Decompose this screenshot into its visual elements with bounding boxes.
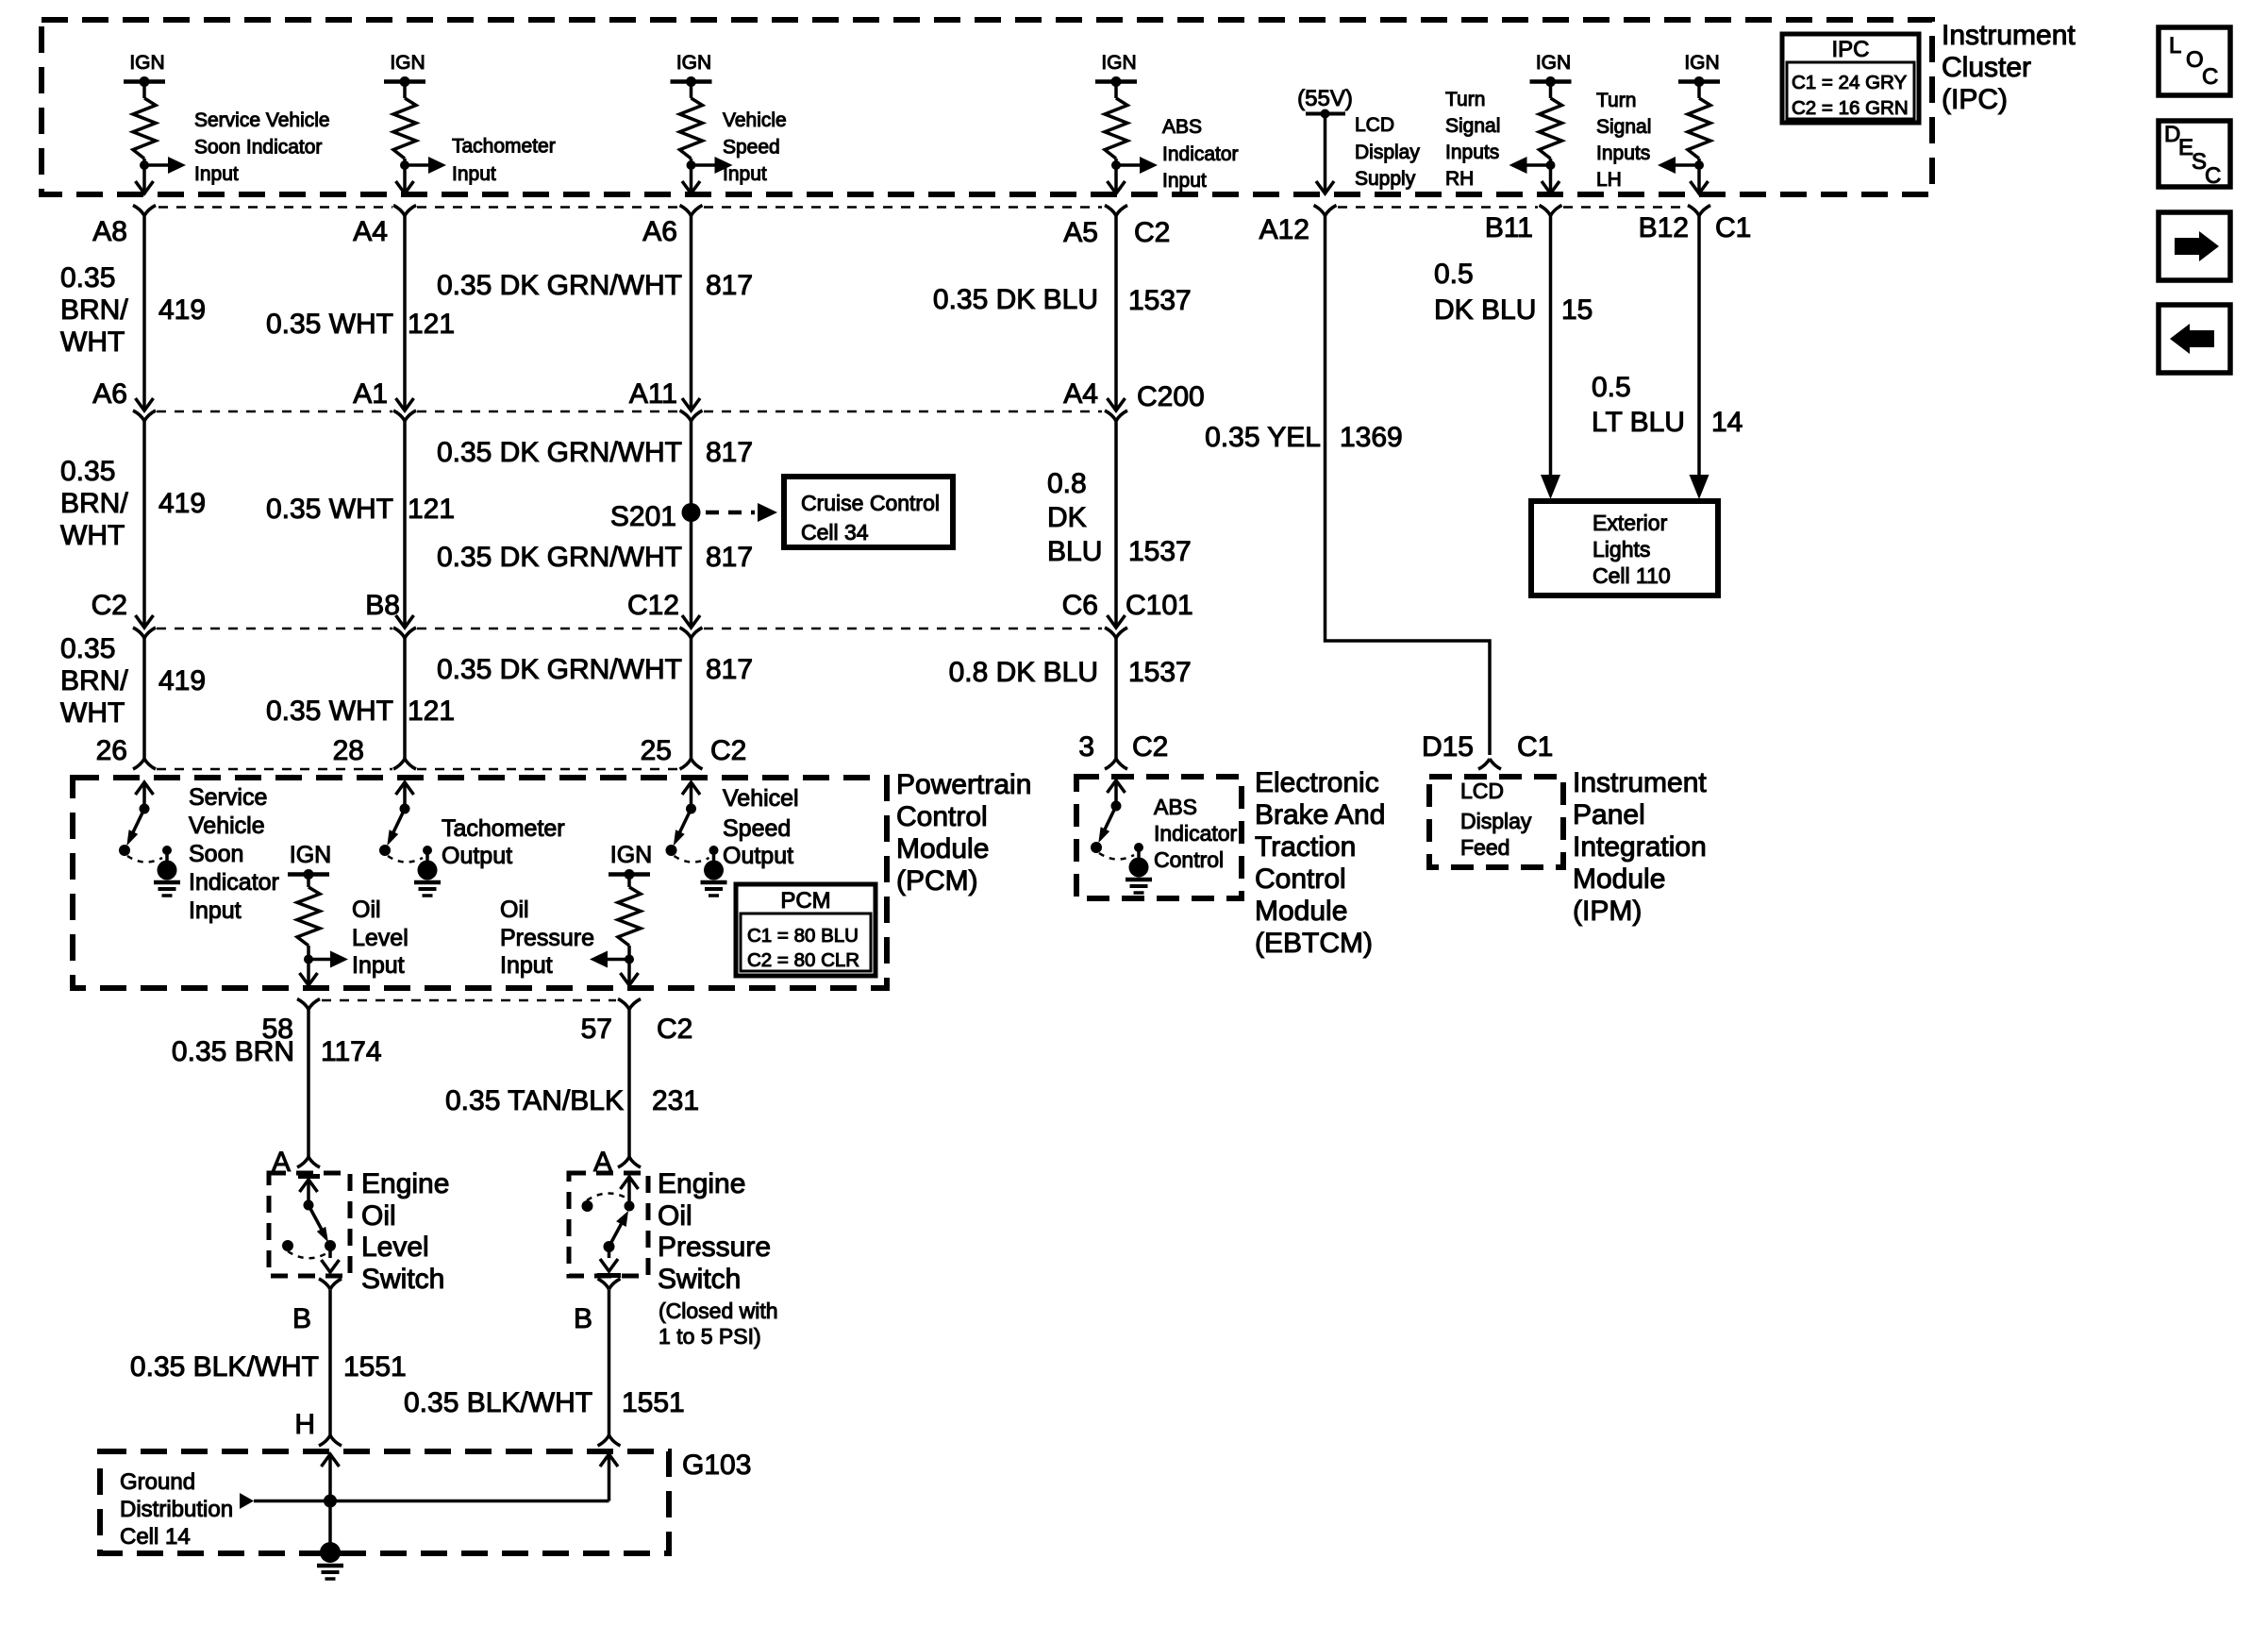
svg-text:WHT: WHT [60,327,125,358]
svg-text:0.35 DK BLU: 0.35 DK BLU [933,284,1098,315]
svg-text:D15: D15 [1422,731,1474,763]
svg-text:Level: Level [352,925,409,951]
connector chevron C200 pin A6 [133,411,156,421]
wire 14 LT BLU from B12 to Exterior Lights (arrow down) [1697,216,1701,478]
junction dot col 7 [1694,160,1704,170]
svg-text:(IPC): (IPC) [1942,84,2008,115]
wire 121 WHT col2 (row2-row3) [403,421,407,627]
wire 817 DK GRN/WHT col3 upper (row2-S201) [690,421,693,512]
wire 1369 YEL from A12 down, jog right to IPM D15 [1326,216,1491,756]
svg-text:28: 28 [333,735,364,766]
svg-text:Vehicel: Vehicel [723,785,799,812]
svg-text:1174: 1174 [321,1036,382,1067]
svg-text:Oil: Oil [500,897,529,923]
connector chevron oil pressure switch pin A [618,1157,641,1167]
oil level switch up arrow [300,1180,318,1192]
module box Instrument Cluster (IPC) dashed border [42,20,1932,194]
svg-text:Soon: Soon [189,841,243,867]
indicator ball (Vehicle Speed Output) [704,861,724,880]
svg-text:A6: A6 [92,378,127,410]
svg-text:121: 121 [408,309,455,340]
svg-text:1537: 1537 [1128,285,1192,316]
wire 419 BRN/WHT col1 (row1-row2) [142,216,146,411]
svg-text:C2 = 16 GRN: C2 = 16 GRN [1792,97,1909,119]
indicator ball (Tachometer Output) [418,861,438,880]
svg-text:Vehicle: Vehicle [723,109,787,131]
svg-text:Switch: Switch [361,1264,444,1295]
IGN feed bar with junction dot (IPC col 1) [124,79,165,84]
ground bus wire G103 [254,1500,609,1503]
oil pressure switch travel arc dashed [587,1193,627,1200]
junction dot col 6 [1546,160,1556,170]
switch contact dot (Service Vehicle Soon Indicator) [140,804,150,814]
connector line IPC C1 (dashed) [1338,206,1538,209]
wire 1551 BLK/WHT (oil pressure switch to G103) [608,1290,611,1436]
svg-text:0.35 BLK/WHT: 0.35 BLK/WHT [404,1387,592,1418]
oil level switch arm with arrowhead [309,1205,322,1230]
svg-text:121: 121 [408,696,455,727]
IPC table inner box [1787,62,1914,119]
switch contact dot (ABS) [1111,801,1122,812]
svg-text:Module: Module [1573,863,1665,895]
svg-text:Output: Output [723,843,793,869]
oil level switch bottom contact dot [325,1240,336,1251]
svg-text:0.35 DK GRN/WHT: 0.35 DK GRN/WHT [437,270,682,301]
wire IGN bar to resistor (col 7) [1697,82,1701,99]
resistor R7 Turn Signal LH (IPC) [1688,98,1710,159]
svg-text:A1: A1 [353,378,388,410]
connector chevron C200 pin A4 [1105,411,1127,421]
svg-text:B12: B12 [1639,212,1689,243]
indicator ball stem (ABS) [1137,847,1141,861]
svg-text:Inputs: Inputs [1596,142,1650,164]
connector chevron C101 pin C6 [1105,628,1127,638]
svg-text:Control: Control [896,801,988,832]
svg-text:C2: C2 [710,735,746,766]
ground under indicator ball (ABS) [1126,878,1152,882]
connector chevron PCM pin 58 [297,999,320,1010]
IGN feed bar with junction dot (IPC col 7) [1678,79,1720,84]
svg-text:IGN: IGN [610,842,652,868]
svg-text:A4: A4 [353,216,388,247]
svg-text:LCD: LCD [1460,779,1504,803]
svg-text:0.35 WHT: 0.35 WHT [266,494,393,525]
arrow Service Vehicle Soon Indicator Input (points right) [144,163,169,167]
connector chevron pin A5 [1105,206,1127,216]
indicator ball (ABS) [1129,858,1149,878]
svg-text:IGN: IGN [676,52,711,74]
oil level switch travel limit dot [282,1240,293,1251]
svg-text:Input: Input [723,163,767,185]
wire junction to IPC border with down arrowhead (col 1) [142,179,146,193]
junction dot col 2 [400,160,409,170]
svg-text:Cell 34: Cell 34 [801,520,869,545]
svg-text:0.35: 0.35 [60,633,115,664]
oil pressure switch arm with arrowhead [609,1224,622,1247]
svg-text:0.35 YEL: 0.35 YEL [1205,422,1321,453]
wire junction to IPC border with down arrowhead (col 7) [1697,179,1701,193]
svg-text:Powertrain: Powertrain [896,769,1031,800]
wire oil pressure to PCM border with down arrowhead [627,972,631,984]
svg-text:RH: RH [1445,168,1474,190]
svg-text:Oil: Oil [361,1200,396,1232]
svg-text:A5: A5 [1063,217,1098,248]
connector chevron oil level switch pin B [319,1279,342,1289]
connector line C200 (dashed) [157,411,392,413]
resistor R oil level input (PCM) [307,875,310,888]
IGN feed bar with junction dot (PCM oil level) [288,872,329,877]
svg-text:Control: Control [1255,863,1346,895]
svg-text:C1 = 80 BLU: C1 = 80 BLU [747,925,859,947]
svg-text:Cluster: Cluster [1942,52,2031,83]
svg-text:Input: Input [500,952,553,979]
indicator ball stem dot (ABS) [1134,843,1143,852]
connector chevron oil level switch pin A [297,1157,320,1167]
svg-text:(EBTCM): (EBTCM) [1255,928,1373,959]
svg-text:817: 817 [706,542,753,573]
IGN feed bar with junction dot (IPC col 4) [1095,79,1137,84]
wire oil level to PCM border with down arrowhead [307,972,310,984]
svg-text:B8: B8 [365,590,400,621]
wire G103 right branch up arrow [600,1454,618,1467]
oil level switch wire to pin B with down arrowhead [328,1246,332,1258]
box Exterior Lights Cell 110 [1531,501,1718,595]
wire G103 left branch up arrow [322,1454,340,1467]
junction dot oil level [304,955,313,964]
svg-text:57: 57 [581,1014,612,1045]
svg-text:14: 14 [1711,407,1743,438]
svg-text:Switch: Switch [658,1264,741,1295]
svg-text:DK: DK [1047,502,1087,533]
connector line PCM C1/C2 (dashed) [157,768,392,771]
svg-text:C101: C101 [1126,590,1193,621]
IGN feed bar with junction dot (IPC col 3) [671,79,712,84]
ground symbol G103 [317,1564,343,1568]
wire 55V supply to IPC border with down arrowhead [1324,114,1327,193]
connector chevron oil pressure switch pin B [598,1279,621,1289]
wire 419 BRN/WHT col1 (row3-PCM) [142,638,146,759]
svg-text:0.35 WHT: 0.35 WHT [266,696,393,727]
wire junction to IPC border with down arrowhead (col 3) [690,179,693,193]
switch arrow into PCM pin (Service Vehicle Soon Indicator) [136,782,154,795]
connector chevron pin A4 [393,206,416,216]
wire resistor to junction (oil pressure) [627,946,631,972]
svg-text:1551: 1551 [343,1351,407,1383]
svg-text:1551: 1551 [622,1387,685,1418]
arrow Tachometer Input (points right) [405,163,429,167]
connector line IPC C2 (dashed) [158,206,392,209]
oil level switch top contact dot [304,1200,314,1211]
svg-text:0.35 DK GRN/WHT: 0.35 DK GRN/WHT [437,437,682,468]
svg-text:Turn: Turn [1596,90,1636,111]
svg-text:Module: Module [896,833,989,864]
svg-text:IGN: IGN [129,52,164,74]
svg-text:1369: 1369 [1340,422,1403,453]
svg-text:0.8 DK BLU: 0.8 DK BLU [949,657,1098,688]
svg-text:0.35 BLK/WHT: 0.35 BLK/WHT [130,1351,319,1383]
svg-text:Display: Display [1460,809,1532,833]
svg-text:0.35: 0.35 [60,262,115,293]
IGN feed bar with junction dot (IPC col 6) [1530,79,1572,84]
svg-text:817: 817 [706,437,753,468]
svg-text:H: H [294,1409,315,1440]
wire junction to IPC border with down arrowhead (col 4) [1114,179,1118,193]
switch travel arc dashed (ABS) [1099,853,1134,860]
svg-text:26: 26 [96,735,127,766]
wire junction to IPC border with down arrowhead (col 6) [1549,179,1553,193]
svg-text:Feed: Feed [1460,835,1509,860]
svg-text:Panel: Panel [1573,799,1645,830]
module box Instrument Panel Integration Module (IPM) LCD Display Feed (dashed) [1429,777,1563,867]
connector chevron PCM pin 25/C2 [680,759,703,769]
svg-text:419: 419 [158,294,206,326]
svg-text:A4: A4 [1063,378,1098,410]
legend box left-arrow [2159,305,2230,373]
switch arrow into PCM pin (Tachometer Output) [396,782,414,795]
svg-text:C2: C2 [657,1014,692,1045]
connector chevron G103 right [598,1435,621,1446]
svg-text:C2: C2 [1134,217,1170,248]
svg-text:PCM: PCM [780,888,830,914]
svg-text:Indicator: Indicator [189,869,279,896]
svg-text:IGN: IGN [1684,52,1719,74]
connector chevron C200 pin A11 [680,411,703,421]
wire IGN bar to resistor (col 3) [690,82,693,99]
svg-text:0.35 DK GRN/WHT: 0.35 DK GRN/WHT [437,542,682,573]
connector chevron PCM pin 28 [393,759,416,769]
svg-text:15: 15 [1561,294,1593,326]
svg-text:C: C [2205,163,2221,189]
svg-text:Cell 110: Cell 110 [1593,563,1671,588]
svg-text:IGN: IGN [290,842,331,868]
svg-text:0.35 WHT: 0.35 WHT [266,309,393,340]
svg-text:1537: 1537 [1128,657,1192,688]
IGN feed bar with junction dot (IPC col 2) [384,79,425,84]
wire 231 TAN/BLK (PCM to oil pressure switch) [627,1010,631,1158]
IGN feed bar with junction dot (PCM oil pressure) [609,872,650,877]
svg-text:1 to 5 PSI): 1 to 5 PSI) [659,1324,761,1349]
resistor R3 Vehicle Speed input (IPC) [680,98,703,159]
switch arm (Tachometer Output) [393,809,405,832]
indicator ball stem (Service Vehicle Soon Indicator) [165,850,169,863]
switch pivot dot (Service Vehicle Soon Indicator) [119,845,130,856]
svg-text:IPC: IPC [1831,37,1869,62]
connector chevron pin B12 [1688,206,1710,216]
arrow Oil Level Input (points right) [309,958,331,962]
switch arrow into PCM pin (Vehicle Speed Output) [682,782,700,795]
wire resistor to junction (col 1) [142,159,146,179]
svg-text:WHT: WHT [60,697,125,729]
svg-text:Module: Module [1255,896,1347,927]
wire IGN bar to resistor (col 6) [1549,82,1553,99]
svg-text:Oil: Oil [352,897,381,923]
junction dot col 3 [687,160,696,170]
svg-text:817: 817 [706,270,753,301]
connector chevron C200 pin A1 [393,411,416,421]
indicator ball stem (Vehicle Speed Output) [712,850,716,863]
ground box G103 (dashed) [100,1451,669,1553]
oil pressure switch up arrow [621,1177,639,1189]
svg-text:G103: G103 [682,1450,751,1481]
svg-text:Lights: Lights [1593,537,1650,562]
wire 121 WHT col2 (row1-row2) [403,216,407,411]
wire resistor to junction (col 4) [1114,159,1118,179]
svg-text:Indicator: Indicator [1162,143,1239,165]
module box Powertrain Control Module (PCM) dashed border [73,778,887,988]
wire 1551 BLK/WHT (oil level switch to G103) [328,1290,332,1436]
svg-text:Input: Input [1162,170,1207,192]
svg-text:Service Vehicle: Service Vehicle [194,109,330,131]
arrow into ground bus (points right) [240,1493,254,1509]
svg-text:419: 419 [158,665,206,696]
svg-text:B: B [292,1303,311,1334]
arrow Oil Pressure Input (points left) [607,958,629,962]
arrow Turn Signal Inputs RH (points left) [1526,163,1551,167]
switch contact dot (Vehicle Speed Output) [686,804,696,814]
oil pressure switch bottom tick [597,1273,621,1278]
svg-text:(55V): (55V) [1297,86,1353,111]
switch pivot dot (Tachometer Output) [379,845,391,856]
svg-text:Input: Input [194,163,239,185]
svg-text:Inputs: Inputs [1445,142,1499,163]
junction dot oil pressure [625,955,634,964]
switch travel arc dashed (Service Vehicle Soon Indicator) [127,856,162,863]
oil level switch top tick [298,1174,320,1179]
svg-text:C2 = 80 CLR: C2 = 80 CLR [747,949,859,971]
connector chevron PCM pin 26 [133,759,156,769]
svg-text:0.35 BRN: 0.35 BRN [172,1036,294,1067]
wire 419 BRN/WHT col1 (row2-row3) [142,421,146,627]
wire 1537 DK BLU col4 (row1-row2) [1114,216,1118,411]
dashed reference arrow S201 to Cruise Control [706,511,755,515]
wire resistor to junction (col 3) [690,159,693,179]
ground point ball G103 [320,1542,341,1563]
ground under indicator ball (Service Vehicle Soon Indicator) [154,880,180,885]
wire IGN bar to resistor (col 4) [1114,82,1118,99]
switch arm (ABS) [1105,806,1116,830]
svg-text:C1: C1 [1517,731,1553,763]
svg-text:BLU: BLU [1047,536,1102,567]
svg-text:Cruise Control: Cruise Control [801,491,940,515]
PCM table inner box [741,914,871,971]
wire 1174 BRN (PCM to oil level switch) [307,1010,310,1158]
wire 121 WHT col2 (row3-PCM) [403,638,407,759]
connector chevron EBTCM pin 3 [1105,759,1127,769]
svg-text:Signal: Signal [1596,116,1651,138]
wire 817 DK GRN/WHT col3 (row3-PCM) [690,638,693,759]
55V supply bar with junction dot [1306,112,1345,116]
connector chevron pin A8 [133,206,156,216]
junction dot col 4 [1111,160,1121,170]
svg-text:IGN: IGN [1101,52,1136,74]
svg-text:C6: C6 [1062,590,1098,621]
svg-text:Pressure: Pressure [658,1232,771,1263]
junction dot col 1 [140,160,149,170]
svg-text:B: B [574,1303,592,1334]
svg-text:C1: C1 [1715,212,1751,243]
svg-text:Exterior: Exterior [1593,511,1668,535]
svg-text:(PCM): (PCM) [896,865,978,897]
connector chevron C101 pin B8 [393,628,416,638]
svg-text:Output: Output [442,843,512,869]
svg-text:25: 25 [641,735,672,766]
svg-text:A12: A12 [1259,214,1309,245]
svg-text:Tachometer: Tachometer [452,136,556,158]
svg-text:0.5: 0.5 [1434,259,1474,290]
box Cruise Control Cell 34 [784,477,953,547]
connector line PCM C2 bottom (dashed) [322,999,616,1002]
svg-text:B11: B11 [1485,212,1533,243]
svg-text:Control: Control [1154,847,1224,872]
svg-text:Supply: Supply [1355,168,1416,190]
svg-text:C12: C12 [627,590,679,621]
svg-text:A8: A8 [92,216,127,247]
resistor R4 ABS Indicator (IPC) [1105,98,1127,159]
svg-text:0.8: 0.8 [1047,468,1087,499]
svg-text:Display: Display [1355,142,1420,163]
svg-text:S201: S201 [610,501,676,532]
svg-text:BRN/: BRN/ [60,488,128,519]
svg-text:Distribution: Distribution [120,1497,233,1522]
switch travel arc dashed (Tachometer Output) [388,856,423,863]
indicator ball stem dot (Tachometer Output) [423,846,432,855]
svg-text:Level: Level [361,1232,429,1263]
svg-text:Oil: Oil [658,1200,692,1232]
indicator ball stem (Tachometer Output) [425,850,429,863]
wire IGN bar to resistor (col 2) [403,82,407,99]
svg-text:BRN/: BRN/ [60,665,128,696]
svg-text:O: O [2186,47,2204,73]
svg-text:DK BLU: DK BLU [1434,294,1536,326]
connector chevron pin A12 [1314,206,1337,216]
switch box Engine Oil Level Switch (dashed) [269,1173,350,1276]
svg-text:C1 = 24 GRY: C1 = 24 GRY [1792,72,1907,93]
svg-text:419: 419 [158,488,206,519]
wire IGN bar to resistor (col 1) [142,82,146,99]
svg-text:L: L [2169,33,2181,59]
connector chevron pin A6 [680,206,703,216]
oil level switch travel arc dashed [288,1251,328,1258]
connector chevron IPM pin D15 [1478,759,1501,769]
module box Electronic Brake And Traction Control Module (EBTCM) dashed border [1076,777,1242,898]
arrow Vehicle Speed Input (points right) [692,163,716,167]
switch pivot dot (ABS) [1091,842,1102,853]
svg-text:LH: LH [1596,169,1622,191]
svg-text:ABS: ABS [1154,795,1197,819]
svg-text:Cell 14: Cell 14 [120,1524,191,1550]
wire 817 DK GRN/WHT col3 (row1-row2) [690,216,693,411]
svg-text:Tachometer: Tachometer [442,815,565,842]
switch arm (Service Vehicle Soon Indicator) [133,809,144,832]
ground under indicator ball (Vehicle Speed Output) [701,880,727,885]
indicator ball (Service Vehicle Soon Indicator) [158,861,177,880]
svg-text:C200: C200 [1137,381,1205,412]
svg-text:LCD: LCD [1355,114,1394,136]
connector chevron C101 pin C12 [680,628,703,638]
IPC connector table box [1782,34,1919,123]
svg-text:0.35 TAN/BLK: 0.35 TAN/BLK [445,1085,624,1116]
svg-text:0.5: 0.5 [1592,372,1631,403]
svg-text:Instrument: Instrument [1573,767,1707,798]
svg-text:Engine: Engine [658,1168,745,1199]
svg-text:C: C [2202,64,2218,90]
wire resistor to junction (col 7) [1697,159,1701,179]
switch contact dot (Tachometer Output) [400,804,410,814]
svg-text:Ground: Ground [120,1469,195,1495]
svg-text:Turn: Turn [1445,89,1485,110]
wire junction to IPC border with down arrowhead (col 2) [403,179,407,193]
svg-text:(IPM): (IPM) [1573,896,1642,927]
